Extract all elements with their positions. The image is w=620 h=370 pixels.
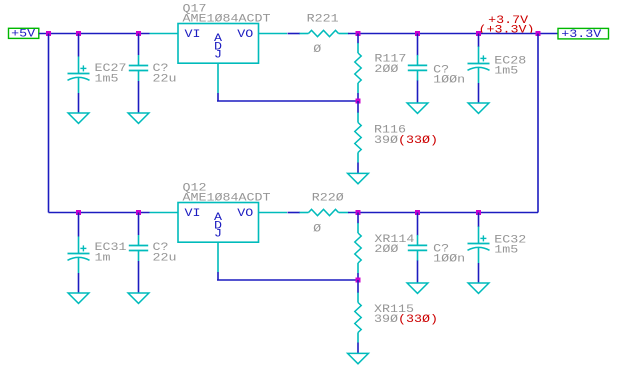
capacitor EC32 (polarized 1m5) <box>478 213 480 228</box>
wire ADJ feedback horizontal to R117/R116 node <box>217 100 358 102</box>
resistor R220 <box>300 209 349 215</box>
wire Q12 ADJ pin down <box>217 272 219 280</box>
wire +5V rail to Q12 VI pin <box>49 212 150 214</box>
junction ADJ node (R117/R116) <box>356 99 361 104</box>
svg-text:22u: 22u <box>153 253 177 265</box>
junction +5V rail / left vertical rail <box>46 31 51 36</box>
ground below EC27 <box>68 113 89 123</box>
svg-text:VO: VO <box>237 29 253 41</box>
power port +3.3V <box>558 28 609 39</box>
ground below XR115 <box>348 353 369 363</box>
wire Q17 VO to R221 <box>288 33 301 35</box>
svg-text:+3.3V: +3.3V <box>561 29 602 41</box>
net annotation (+3.3V) (red) <box>479 25 535 37</box>
wire Q12 VO to R220 <box>288 212 301 214</box>
svg-text:J: J <box>214 49 222 61</box>
svg-text:39Ø: 39Ø <box>374 314 399 326</box>
capacitor C? 22u (top) <box>138 34 140 56</box>
wire right vertical rail down to Q12 output <box>537 34 539 213</box>
resistor XR115 (390/330) <box>357 280 359 293</box>
svg-text:Ø: Ø <box>313 224 322 236</box>
svg-text:1m5: 1m5 <box>95 74 119 86</box>
wire R221 to +3.3V output port <box>348 33 558 35</box>
svg-text:AME1Ø84ACDT: AME1Ø84ACDT <box>183 193 271 205</box>
junction C? 22u tap <box>136 31 141 36</box>
junction R220 out / XR114 top <box>356 210 361 215</box>
wire Q17 ADJ pin down <box>217 93 219 101</box>
power port +5V <box>9 28 39 38</box>
junction EC32 tap <box>476 210 481 215</box>
ground below EC32 <box>468 283 489 293</box>
regulator U Q17 AME1084ACDT <box>150 24 288 94</box>
svg-text:VI: VI <box>185 29 201 41</box>
junction EC27 tap <box>76 31 81 36</box>
ground below C? 100n (bottom) <box>407 283 428 293</box>
ground below R116 <box>348 173 369 183</box>
svg-text:(+3.3V): (+3.3V) <box>479 25 535 37</box>
wire left vertical +5V rail down to Q12 circuit <box>48 34 50 213</box>
resistor R117 (200) <box>357 34 359 44</box>
svg-text:22u: 22u <box>153 74 177 86</box>
capacitor EC28 (polarized 1m5) <box>478 34 480 48</box>
ground below C? 22u (bottom) <box>128 293 149 303</box>
svg-text:2ØØ: 2ØØ <box>374 244 399 256</box>
svg-text:1m: 1m <box>95 253 111 265</box>
svg-text:R221: R221 <box>307 14 339 26</box>
svg-text:AME1Ø84ACDT: AME1Ø84ACDT <box>183 14 271 26</box>
capacitor C? 100n (bottom) <box>417 213 419 236</box>
svg-text:Ø: Ø <box>313 44 322 56</box>
svg-text:VO: VO <box>237 208 253 220</box>
svg-text:1ØØn: 1ØØn <box>433 254 465 266</box>
resistor R116 (390/330) <box>357 101 359 113</box>
wire ADJ feedback horizontal to XR114/XR115 node <box>217 279 358 281</box>
ground below C? 100n (top) <box>407 103 428 113</box>
resistor R221 <box>300 30 349 36</box>
wire +5V rail to U-Q17 VI pin <box>39 33 150 35</box>
junction C? 100n tap (bottom) <box>415 210 420 215</box>
junction R221 out / R117 top <box>356 31 361 36</box>
svg-text:39Ø: 39Ø <box>374 135 399 147</box>
svg-text:J: J <box>214 228 222 240</box>
junction EC28 tap <box>476 31 481 36</box>
capacitor C? 100n (top) <box>417 34 419 56</box>
svg-text:+5V: +5V <box>11 28 36 40</box>
ground below EC31 <box>68 293 89 303</box>
svg-text:1m5: 1m5 <box>494 244 518 256</box>
wire R220 to right vertical rail <box>348 212 538 214</box>
junction C? 100n tap (top) <box>415 31 420 36</box>
svg-text:1ØØn: 1ØØn <box>433 75 465 87</box>
junction C? 22u tap (bottom) <box>136 210 141 215</box>
svg-text:1m5: 1m5 <box>494 65 518 77</box>
resistor XR114 (200) <box>357 213 359 224</box>
junction right vertical rail <box>536 31 541 36</box>
regulator U Q12 AME1084ACDT <box>150 203 288 273</box>
capacitor C? 22u (bottom) <box>138 213 140 236</box>
svg-text:2ØØ: 2ØØ <box>374 64 399 76</box>
junction ADJ node (XR114/XR115) <box>356 278 361 283</box>
capacitor EC27 (polarized 1m5) <box>78 34 80 57</box>
svg-text:R22Ø: R22Ø <box>312 193 345 205</box>
svg-text:(33Ø): (33Ø) <box>398 135 438 147</box>
junction EC31 tap <box>76 210 81 215</box>
capacitor EC31 (polarized 1m) <box>78 213 80 237</box>
svg-text:VI: VI <box>185 208 201 220</box>
ground below C? 22u <box>128 113 149 123</box>
ground below EC28 <box>468 103 489 113</box>
svg-text:(33Ø): (33Ø) <box>398 314 438 326</box>
